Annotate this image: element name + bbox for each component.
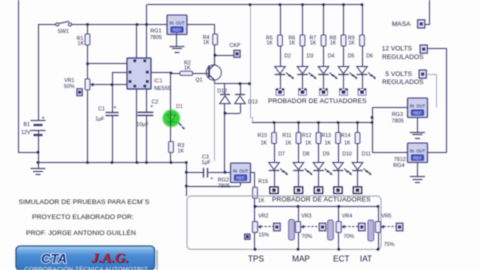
svg-text:D13: D13 bbox=[248, 99, 258, 105]
svg-text:1μF: 1μF bbox=[202, 160, 212, 166]
svg-text:D11: D11 bbox=[362, 152, 371, 158]
svg-text:R11: R11 bbox=[282, 133, 291, 139]
svg-text:Q1: Q1 bbox=[196, 78, 203, 84]
svg-text:R12: R12 bbox=[302, 133, 312, 139]
svg-text:IN OUT: IN OUT bbox=[233, 169, 249, 174]
svg-text:75%: 75% bbox=[384, 242, 395, 248]
svg-text:PROBADOR DE ACTUADORES: PROBADOR DE ACTUADORES bbox=[272, 197, 371, 204]
svg-text:REF: REF bbox=[236, 175, 245, 180]
svg-text:IN OUT: IN OUT bbox=[410, 149, 426, 154]
svg-text:1K: 1K bbox=[285, 141, 292, 147]
svg-text:12V: 12V bbox=[21, 130, 31, 136]
svg-text:5 VOLTS: 5 VOLTS bbox=[385, 71, 412, 78]
svg-text:R13: R13 bbox=[321, 133, 331, 139]
svg-text:D1: D1 bbox=[176, 104, 183, 110]
svg-text:TPS: TPS bbox=[248, 254, 264, 263]
svg-text:B1: B1 bbox=[24, 122, 31, 128]
svg-text:C1: C1 bbox=[98, 107, 105, 113]
svg-text:D5: D5 bbox=[348, 54, 355, 60]
svg-text:CORPORACIÓN TÉCNICA AUTOMOTRIZ: CORPORACIÓN TÉCNICA AUTOMOTRIZ bbox=[24, 267, 147, 270]
svg-text:REGULADOS: REGULADOS bbox=[382, 79, 424, 86]
svg-text:REF: REF bbox=[173, 27, 182, 32]
svg-text:ECT: ECT bbox=[333, 254, 349, 263]
svg-text:SW1: SW1 bbox=[58, 29, 70, 35]
svg-text:10μF: 10μF bbox=[137, 122, 150, 128]
svg-text:1K: 1K bbox=[289, 41, 296, 47]
svg-text:RG4: RG4 bbox=[393, 163, 404, 169]
svg-text:D3: D3 bbox=[307, 54, 314, 60]
svg-text:MAP: MAP bbox=[292, 254, 310, 263]
svg-text:CKP: CKP bbox=[230, 43, 241, 49]
svg-text:PROYECTO ELABORADO POR:: PROYECTO ELABORADO POR: bbox=[32, 214, 134, 221]
svg-text:1K: 1K bbox=[258, 198, 265, 204]
svg-text:MASA: MASA bbox=[392, 21, 411, 28]
svg-text:R10: R10 bbox=[257, 133, 267, 139]
svg-text:1K: 1K bbox=[203, 40, 210, 46]
svg-text:RG3: RG3 bbox=[392, 112, 403, 118]
svg-text:D6: D6 bbox=[366, 54, 373, 60]
svg-text:1K: 1K bbox=[305, 141, 312, 147]
svg-text:RG1: RG1 bbox=[150, 29, 161, 35]
svg-text:7805: 7805 bbox=[218, 184, 230, 190]
svg-text:D9: D9 bbox=[323, 152, 330, 158]
svg-text:D4: D4 bbox=[328, 54, 335, 60]
svg-text:IAT: IAT bbox=[360, 254, 372, 263]
svg-text:D8: D8 bbox=[303, 152, 310, 158]
svg-text:+: + bbox=[150, 104, 153, 110]
svg-text:J.A.G.: J.A.G. bbox=[91, 251, 129, 266]
svg-text:D7: D7 bbox=[278, 152, 285, 158]
svg-text:CTA: CTA bbox=[41, 251, 67, 266]
svg-text:1K: 1K bbox=[325, 141, 332, 147]
svg-text:+: + bbox=[114, 105, 117, 111]
svg-text:R14: R14 bbox=[341, 133, 351, 139]
svg-text:1K: 1K bbox=[344, 141, 351, 147]
svg-text:1K: 1K bbox=[184, 65, 191, 71]
svg-text:12 VOLTS: 12 VOLTS bbox=[382, 46, 413, 53]
svg-text:D10: D10 bbox=[342, 152, 352, 158]
svg-text:PROBADOR DE ACTUADORES: PROBADOR DE ACTUADORES bbox=[268, 98, 367, 105]
svg-text:REF: REF bbox=[413, 110, 422, 115]
svg-text:D12: D12 bbox=[217, 88, 227, 94]
svg-text:SIMULADOR DE PRUEBAS PARA ECM´: SIMULADOR DE PRUEBAS PARA ECM´S bbox=[19, 199, 150, 206]
svg-text:REF: REF bbox=[413, 155, 422, 160]
svg-text:1K: 1K bbox=[78, 41, 85, 47]
svg-text:PROF. JORGE ANTONIO GUILLÉN: PROF. JORGE ANTONIO GUILLÉN bbox=[26, 228, 136, 237]
svg-text:1K: 1K bbox=[310, 41, 317, 47]
svg-text:VR3: VR3 bbox=[301, 214, 311, 220]
svg-text:7805: 7805 bbox=[392, 118, 404, 124]
svg-text:VR5: VR5 bbox=[381, 214, 391, 220]
svg-text:1K: 1K bbox=[261, 141, 268, 147]
svg-text:15%: 15% bbox=[259, 232, 270, 238]
svg-text:1K: 1K bbox=[348, 41, 355, 47]
svg-text:R15: R15 bbox=[258, 179, 268, 185]
svg-text:NE555: NE555 bbox=[154, 86, 171, 92]
svg-text:REGULADOS: REGULADOS bbox=[382, 54, 424, 61]
svg-text:1μF: 1μF bbox=[95, 117, 105, 123]
svg-text:D2: D2 bbox=[284, 54, 291, 60]
svg-text:+: + bbox=[210, 176, 213, 182]
svg-text:1K: 1K bbox=[178, 148, 185, 154]
svg-text:IN OUT: IN OUT bbox=[169, 21, 185, 26]
svg-text:1K: 1K bbox=[330, 41, 337, 47]
svg-text:1K: 1K bbox=[266, 41, 273, 47]
svg-text:7805: 7805 bbox=[150, 35, 162, 41]
svg-text:IN OUT: IN OUT bbox=[410, 104, 426, 109]
svg-text:70%: 70% bbox=[344, 234, 355, 240]
svg-text:70%: 70% bbox=[302, 234, 313, 240]
svg-text:VR4: VR4 bbox=[342, 214, 352, 220]
svg-text:50%: 50% bbox=[64, 84, 75, 90]
svg-text:VR2: VR2 bbox=[258, 214, 268, 220]
svg-text:+: + bbox=[42, 116, 45, 122]
svg-text:IC1: IC1 bbox=[154, 78, 163, 84]
